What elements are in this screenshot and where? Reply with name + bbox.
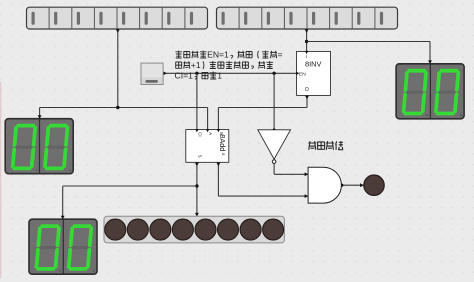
svg-text:O: O (305, 87, 309, 93)
8INV inverter block U2 (297, 51, 331, 95)
wire: 8INV output down-left to adder B input (306, 95, 308, 107)
svg-text:o: o (221, 153, 226, 156)
wire: AND output to LED (342, 184, 364, 186)
8INV pin EN (296, 72, 299, 75)
adder pins (195, 129, 198, 132)
8INV pin I (305, 51, 308, 54)
junction EN->CI (195, 72, 198, 75)
svg-text:8INV: 8INV (305, 60, 322, 69)
label: handle carry text (308, 141, 343, 150)
svg-text:A: A (208, 132, 213, 135)
note text annotation (175, 50, 282, 60)
7-segment display D2 (sum) (29, 219, 97, 274)
wire: adder CO output to AND gate input 2 (217, 162, 219, 196)
svg-text:CI: CI (197, 132, 202, 136)
junction node A (116, 106, 119, 109)
svg-text:EN=1: EN=1 (207, 50, 229, 60)
wire: SW2 output bus down to 8INV input (306, 29, 308, 51)
wire: adder S output down (196, 162, 198, 216)
wire: SW1 output bus down to node A (117, 29, 119, 108)
wire: branch down to display D1 (39, 108, 41, 119)
junction S (195, 184, 198, 187)
wire: EN down to NOT gate input (273, 73, 275, 130)
LED carry output (364, 175, 384, 195)
left window edge tint (0, 82, 1, 278)
adder block U1 8Add (186, 130, 229, 163)
svg-text:I: I (306, 54, 307, 59)
wire: EN down to adder CI (196, 73, 198, 129)
junction EN->NOT (272, 72, 275, 75)
LED row output (8 LEDs) (104, 216, 284, 243)
DIP switch group SW2 (bits B) (217, 7, 398, 29)
DIP switch group SW1 (bits A) (27, 7, 208, 29)
svg-text:S: S (197, 155, 202, 158)
wire: NOT output to AND gate input 1 (273, 164, 275, 175)
svg-text:CI=1: CI=1 (175, 71, 194, 81)
wire: S branch left to display D2 (63, 185, 197, 187)
NOT gate (inverter) (258, 130, 291, 164)
junction node B raw (305, 40, 308, 43)
7-segment display D3 (B value) (396, 64, 464, 119)
toggle switch EN input (141, 63, 163, 84)
wire: EN switch output to 8INV EN (164, 72, 297, 74)
svg-text:8Add: 8Add (218, 134, 227, 151)
svg-text:=: = (278, 50, 283, 60)
svg-text:EN: EN (299, 72, 306, 78)
svg-text:+1: +1 (191, 60, 201, 70)
wire: A bus horizontal to adder A input (40, 107, 208, 109)
svg-text:1: 1 (217, 71, 222, 81)
AND gate (308, 167, 341, 203)
svg-text:B: B (219, 132, 224, 135)
wire: branch right to display D3 (307, 41, 430, 43)
7-segment display D1 (A value) (5, 119, 73, 174)
